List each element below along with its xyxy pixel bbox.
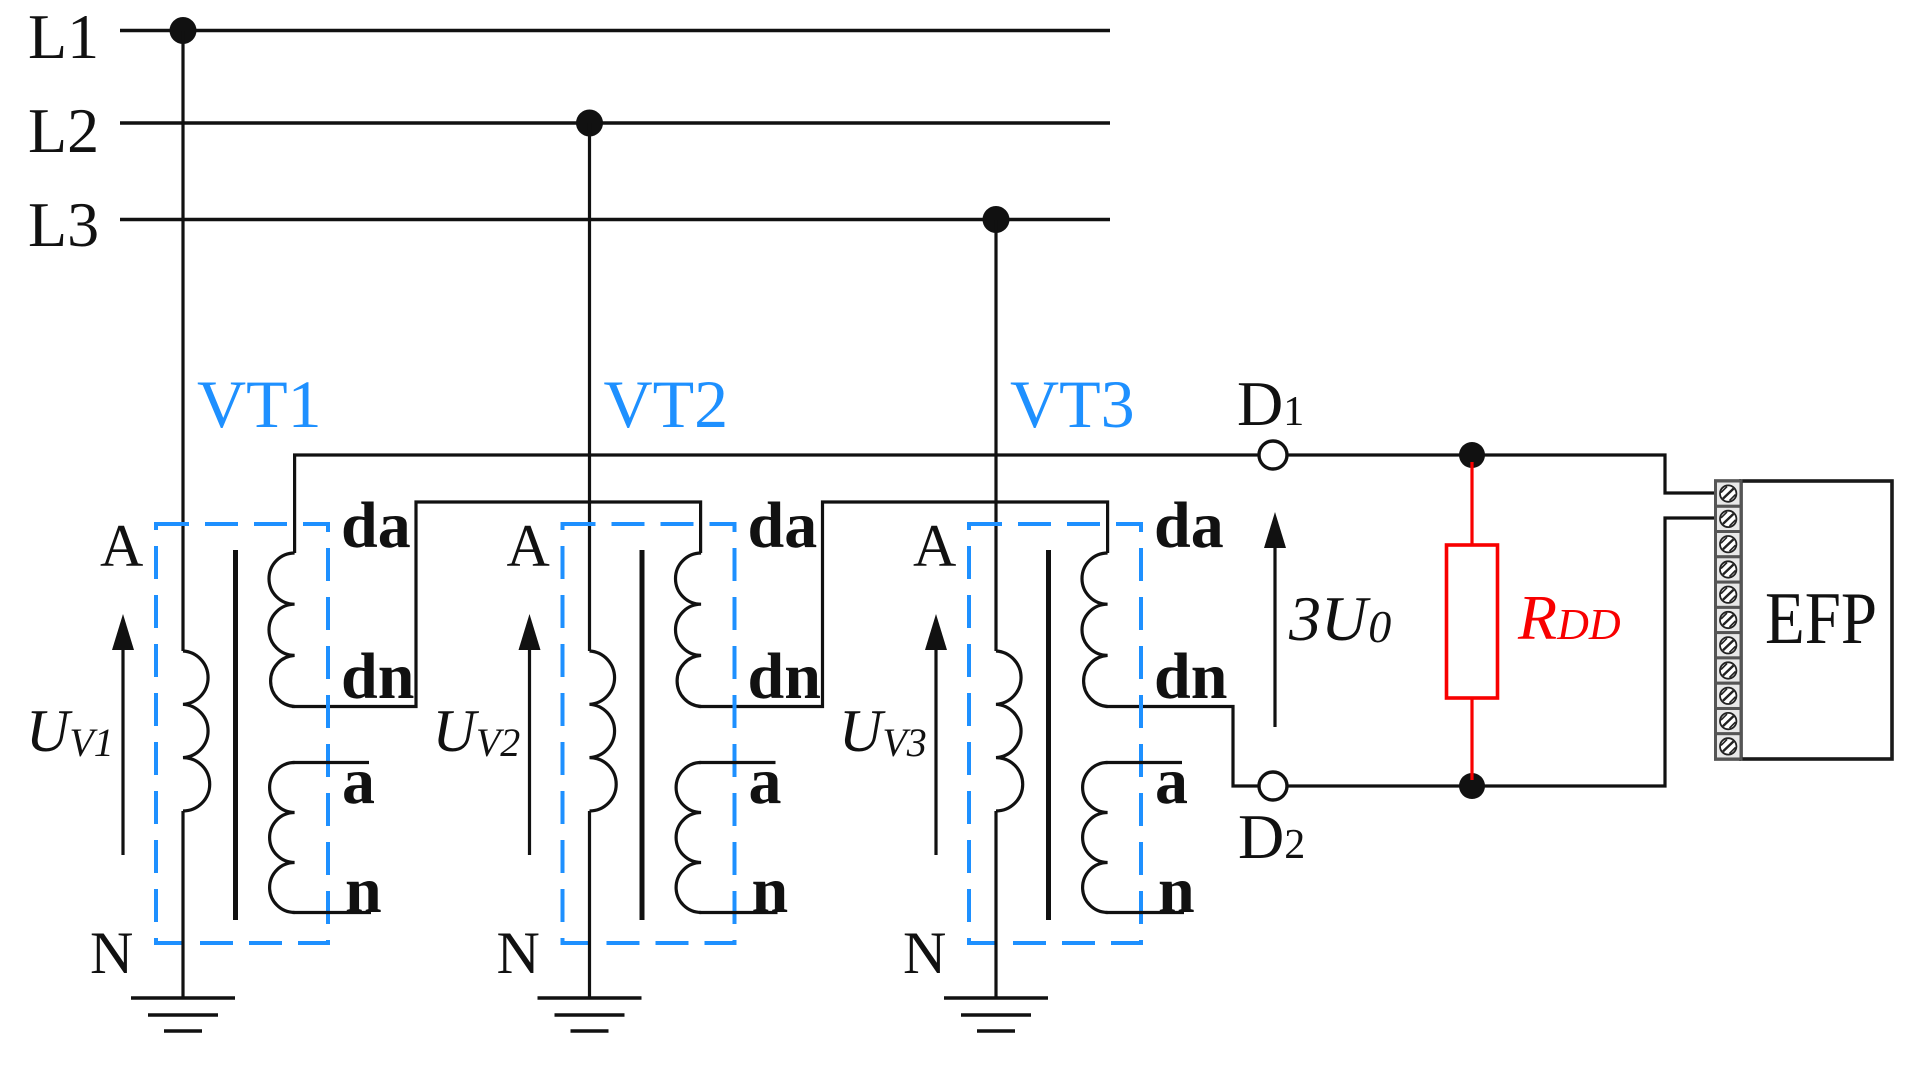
- transformer VT3 core: [1046, 550, 1051, 920]
- transformer VT2 core: [640, 550, 645, 920]
- transformer VT3 secondary winding da-dn: [1082, 553, 1108, 707]
- junction dot on L2: [576, 110, 603, 137]
- EFP terminal 11: [1716, 734, 1742, 759]
- svg-text:D2: D2: [1238, 801, 1305, 872]
- svg-text:UV3: UV3: [839, 698, 927, 765]
- svg-text:n: n: [1158, 854, 1195, 927]
- voltage arrow U_V3: [934, 646, 937, 855]
- svg-text:L3: L3: [28, 189, 99, 260]
- EFP terminal 5: [1716, 582, 1742, 607]
- svg-text:a: a: [342, 745, 375, 818]
- terminal n stub wire: [699, 911, 777, 914]
- wire primary to ground: [588, 811, 591, 998]
- wire primary to ground: [181, 811, 184, 998]
- svg-text:da: da: [1154, 489, 1224, 562]
- ground symbol VT2: [538, 996, 642, 1000]
- transformer VT1 secondary winding a-n: [270, 763, 295, 913]
- svg-text:dn: dn: [341, 640, 414, 713]
- svg-text:a: a: [749, 745, 782, 818]
- phase bus L1: [120, 29, 1110, 32]
- svg-text:A: A: [100, 513, 143, 579]
- wire dn3 to D2 terminal: [1106, 707, 1258, 787]
- svg-text:EFP: EFP: [1765, 578, 1877, 660]
- wire dn2 to da3: [699, 502, 1108, 707]
- svg-text:L1: L1: [28, 1, 99, 72]
- svg-text:dn: dn: [748, 640, 821, 713]
- EFP terminal 3: [1716, 532, 1742, 557]
- svg-text:D1: D1: [1237, 368, 1304, 439]
- terminal a stub wire: [293, 761, 369, 764]
- voltage arrow U_V1: [121, 646, 124, 855]
- EFP terminal 7: [1716, 633, 1742, 658]
- EFP terminal 9: [1716, 683, 1742, 708]
- svg-text:UV2: UV2: [433, 698, 521, 765]
- wire dn1 to da2: [292, 502, 701, 707]
- svg-text:da: da: [341, 489, 411, 562]
- wire L1 tap down to VT1: [181, 31, 184, 652]
- ground symbol VT1: [131, 996, 235, 1000]
- transformer VT3 primary winding: [996, 651, 1023, 811]
- transformer VT2 secondary winding da-dn: [675, 553, 701, 707]
- transformer VT2 primary winding: [590, 651, 617, 811]
- wire D1 to EFP terminal 1: [1287, 455, 1715, 493]
- svg-text:N: N: [903, 920, 946, 986]
- transformer VT1 secondary winding da-dn: [269, 553, 295, 707]
- junction dot bottom of RDD: [1459, 773, 1485, 799]
- wire da1 to D1 terminal: [295, 455, 1258, 553]
- EFP terminal 10: [1716, 709, 1742, 734]
- svg-text:VT3: VT3: [1010, 366, 1135, 442]
- terminal n stub wire: [1106, 911, 1184, 914]
- wire primary to ground: [994, 811, 997, 998]
- EFP terminal 4: [1716, 557, 1742, 582]
- wire L2 tap down to VT2: [588, 123, 591, 651]
- svg-text:L2: L2: [28, 95, 99, 166]
- EFP terminal 2: [1716, 506, 1742, 531]
- svg-text:dn: dn: [1154, 640, 1227, 713]
- svg-text:VT2: VT2: [604, 366, 729, 442]
- svg-text:a: a: [1155, 745, 1188, 818]
- svg-text:da: da: [748, 489, 818, 562]
- terminal a stub wire: [1106, 761, 1182, 764]
- terminal a stub wire: [699, 761, 775, 764]
- svg-text:VT1: VT1: [197, 366, 322, 442]
- junction dot on L1: [170, 17, 197, 44]
- transformer VT2 secondary winding a-n: [676, 763, 701, 913]
- ground symbol VT3: [944, 996, 1048, 1000]
- EFP terminal 8: [1716, 658, 1742, 683]
- svg-text:N: N: [497, 920, 540, 986]
- transformer VT2 dashed outline box: [563, 524, 735, 943]
- transformer VT1 core: [233, 550, 238, 920]
- svg-text:N: N: [90, 920, 133, 986]
- junction dot on L3: [983, 206, 1010, 233]
- terminal D2 open circle: [1259, 772, 1287, 800]
- EFP terminal 1: [1716, 481, 1742, 506]
- junction dot top of RDD: [1459, 442, 1485, 468]
- wire L3 tap down to VT3: [994, 220, 997, 652]
- terminal D1 open circle: [1259, 441, 1287, 469]
- svg-text:A: A: [913, 513, 956, 579]
- wire D2 to EFP terminal 2: [1287, 518, 1715, 786]
- svg-text:n: n: [752, 854, 789, 927]
- phase bus L3: [120, 218, 1110, 221]
- terminal n stub wire: [293, 911, 371, 914]
- voltage arrow 3U0: [1273, 544, 1276, 727]
- transformer VT1 primary winding: [183, 651, 210, 811]
- transformer VT1 dashed outline box: [156, 524, 328, 943]
- transformer VT3 secondary winding a-n: [1083, 763, 1108, 913]
- transformer VT3 dashed outline box: [969, 524, 1141, 943]
- svg-text:3U0: 3U0: [1288, 583, 1391, 654]
- phase bus L2: [120, 121, 1110, 124]
- voltage arrow U_V2: [528, 646, 531, 855]
- EFP relay box: [1741, 481, 1892, 759]
- svg-text:UV1: UV1: [26, 698, 114, 765]
- EFP terminal 6: [1716, 607, 1742, 632]
- svg-text:RDD: RDD: [1517, 582, 1621, 653]
- resistor RDD: [1470, 462, 1473, 545]
- svg-text:A: A: [507, 513, 550, 579]
- svg-text:n: n: [345, 854, 382, 927]
